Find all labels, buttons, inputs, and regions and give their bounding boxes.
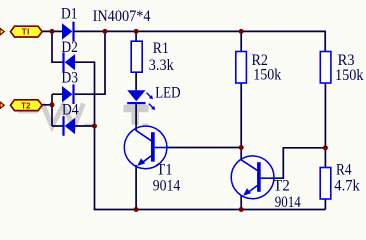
svg-text:TI: TI: [22, 28, 30, 37]
wire R3 bottom: [324, 83, 326, 148]
svg-text:R4: R4: [336, 162, 352, 179]
node D3 cathode rail: [103, 29, 108, 34]
wire T1 emitter to rail: [135, 165, 137, 210]
terminal T1: [11, 26, 43, 37]
svg-text:T2: T2: [21, 101, 31, 110]
resistor R1: [131, 41, 142, 72]
watermark gray W: [43, 104, 84, 127]
watermark gray bar under T2 terminal: [18, 108, 38, 114]
wire R2 branch: [240, 31, 242, 160]
watermark gray specks: [85, 124, 95, 126]
wire D2 anode to negative rail: [75, 62, 95, 209]
edge terminal tip top: [0, 28, 4, 35]
node R1 top: [134, 29, 139, 34]
node T2 emitter rail: [239, 207, 244, 212]
wire top rail: [42, 31, 325, 52]
node R3/R4 junction: [323, 145, 328, 150]
wire T2 base to R3/R4 node: [272, 148, 325, 178]
wire R4 leads: [324, 148, 326, 210]
svg-text:T2: T2: [273, 178, 290, 195]
node T1 input: [50, 29, 55, 34]
svg-text:150k: 150k: [335, 67, 364, 84]
node T2 input: [50, 102, 55, 107]
svg-text:9014: 9014: [153, 178, 181, 195]
node R2 top: [239, 29, 244, 34]
resistor R4: [320, 168, 331, 200]
terminal T2: [11, 100, 43, 111]
svg-text:3.3k: 3.3k: [149, 57, 174, 74]
diode D4: [62, 116, 75, 136]
node D2/D4 junction: [92, 124, 97, 129]
transistor T1: [124, 126, 167, 169]
svg-text:D3: D3: [62, 70, 79, 87]
svg-text:D4: D4: [62, 102, 79, 119]
diode D3: [62, 84, 75, 104]
resistor R2: [236, 52, 247, 84]
edge terminal tip bottom: [0, 102, 4, 109]
svg-text:4.7k: 4.7k: [334, 178, 360, 195]
watermark gray T: [124, 105, 149, 125]
wire T2 node up to D3 and down to D4: [42, 94, 63, 126]
wire bottom rail: [94, 209, 326, 211]
svg-text:R1: R1: [153, 40, 169, 57]
svg-text:LED: LED: [155, 85, 180, 102]
svg-text:9014: 9014: [275, 194, 301, 211]
svg-text:D2: D2: [61, 39, 78, 56]
diode D1: [62, 22, 75, 42]
LED: [127, 90, 155, 110]
svg-text:T1: T1: [156, 162, 172, 179]
wire D4 anode to junction: [75, 125, 95, 127]
transistor T2: [231, 156, 274, 199]
svg-text:IN4007*4: IN4007*4: [93, 8, 151, 25]
node T1 emitter rail: [134, 207, 139, 212]
wire D3 cathode up to top rail: [75, 31, 105, 94]
wire R1 branch: [135, 31, 137, 131]
wire T1 node down to D2: [52, 31, 63, 62]
wire T1 base to R2 bottom: [167, 147, 242, 149]
diode D2: [62, 52, 75, 72]
svg-text:D1: D1: [61, 6, 78, 23]
resistor R3: [320, 52, 331, 84]
svg-text:150k: 150k: [253, 67, 281, 84]
node T1 base / R2 bottom: [239, 145, 244, 150]
wire T2 emitter to rail: [240, 195, 242, 209]
